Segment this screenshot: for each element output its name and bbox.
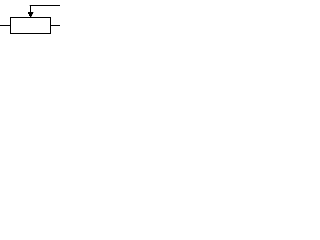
resistor R1 (potentiometer body) <box>11 18 51 34</box>
wire left lead <box>0 25 11 27</box>
wire right lead <box>51 25 61 27</box>
wiper arrowhead <box>28 5 34 17</box>
wire wiper top lead <box>30 5 60 7</box>
wire wiper vertical <box>30 5 32 13</box>
